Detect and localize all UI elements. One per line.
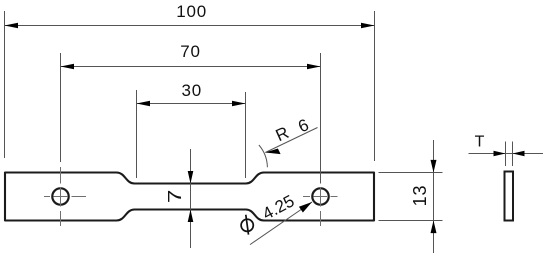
side view rectangle (thickness view) [505,172,514,221]
dim 100 extension line left [4,11,6,158]
dim 7 arrow bottom [188,210,194,223]
centerline left hole vertical [60,167,62,226]
svg-text:100: 100 [176,2,207,21]
dim 7 arrow top [188,171,194,184]
dim T arrow left [494,151,506,156]
dim 70 arrow left [61,64,75,70]
dim 30 arrow left [137,101,151,107]
dim 13 extension line top [379,172,443,174]
dim 100 extension line right [374,11,376,161]
dim 100 arrow right [361,23,375,29]
dim 13 extension line bottom [379,220,443,222]
dim 100 line [5,25,375,27]
diameter 4.25 leader arrow [299,202,312,213]
dim T arrow right [513,151,525,156]
dim 13 arrow bottom [431,221,437,234]
radius R6 leader arrow [265,149,280,155]
svg-text:70: 70 [180,42,201,61]
svg-text:13: 13 [410,185,430,207]
dim 70 arrow right [307,64,321,70]
centerline right hole horizontal [303,196,338,198]
dim 13 arrow top [431,160,437,173]
part outline (dog-bone tensile specimen, front view) [5,173,374,221]
diameter symbol [241,215,253,235]
svg-text:7: 7 [165,190,185,204]
dim 70 extension line left (to hole centerline) [60,53,62,162]
dim 70 extension line right (to hole centerline) [320,53,322,184]
radius R6 text [273,115,312,145]
dim 7 line vertical [190,149,192,248]
svg-text:T: T [475,133,485,150]
dim 30 extension line left [136,90,138,178]
diameter 4.25 leader line [250,202,312,245]
hole left [52,188,68,204]
centerline left hole horizontal [44,196,86,198]
dim T line [469,153,544,155]
dim 30 extension line right [245,92,247,178]
dim 70 line [61,66,321,68]
hole right [312,188,328,204]
dim 13 line vertical [433,140,435,253]
svg-text:30: 30 [181,81,202,100]
dim T extension line right [512,142,514,167]
dim T extension line left [505,142,507,167]
dim 30 arrow right [232,101,246,107]
centerline right hole vertical [320,187,322,226]
radius R6 leader line [265,128,317,153]
dim 30 line [137,103,246,105]
radius R6 extension arc [259,145,268,167]
dim 100 arrow left [5,23,19,29]
